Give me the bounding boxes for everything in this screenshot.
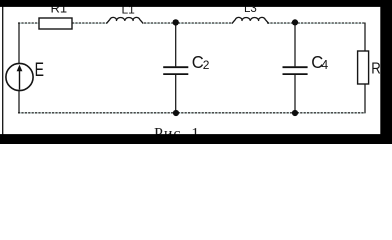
- svg-text:2: 2: [203, 58, 210, 72]
- svg-text:R: R: [371, 60, 381, 77]
- svg-text:4: 4: [321, 58, 328, 72]
- svg-text:E: E: [35, 59, 44, 81]
